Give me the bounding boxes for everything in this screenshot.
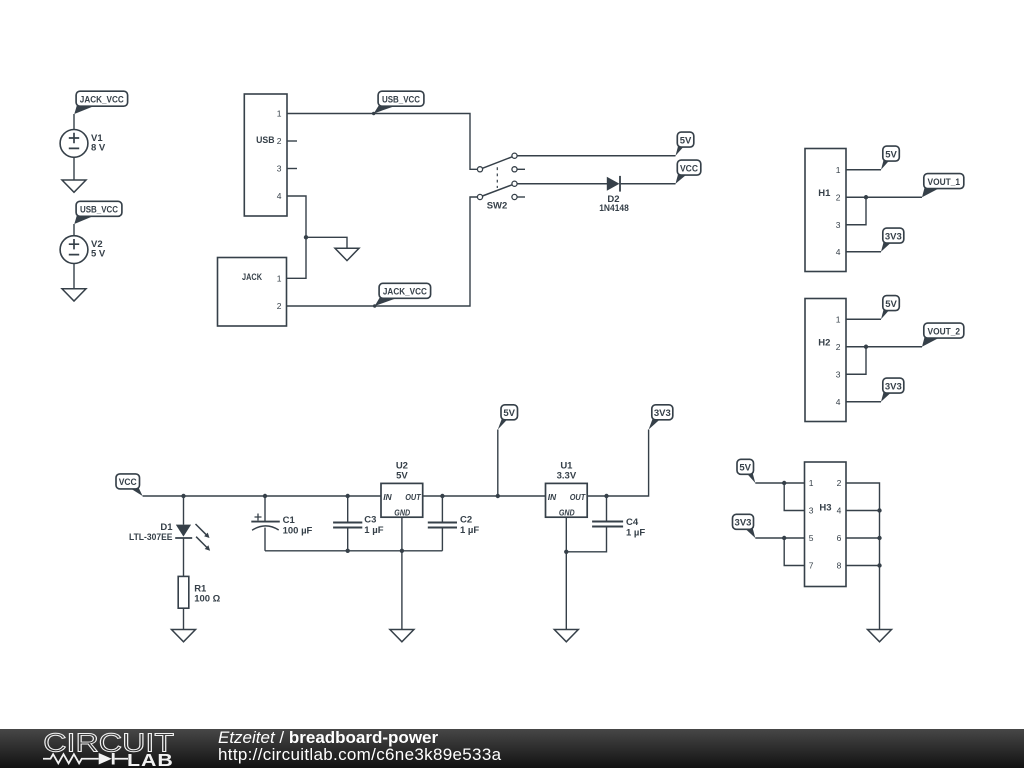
svg-text:IN: IN: [383, 492, 392, 502]
net flag USB_VCC (USB pin1 wire): [374, 91, 424, 113]
svg-text:VOUT_2: VOUT_2: [928, 326, 961, 337]
junction H3 pin6: [877, 536, 881, 540]
net flag 5V (H2 pin1): [881, 296, 899, 320]
svg-text:1: 1: [836, 165, 841, 175]
svg-text:1N4148: 1N4148: [599, 203, 629, 214]
svg-text:1 µF: 1 µF: [460, 525, 479, 536]
junction rail C3: [346, 494, 350, 498]
svg-text:3V3: 3V3: [735, 518, 752, 529]
svg-text:4: 4: [836, 397, 841, 407]
svg-text:8 V: 8 V: [91, 142, 106, 153]
ground U2: [390, 630, 414, 642]
net flag VOUT_1: [922, 174, 964, 198]
junction flag JACK_VCC anchor: [373, 304, 376, 307]
connector USB: [244, 94, 287, 216]
net flag 3V3 (H3): [733, 514, 756, 538]
svg-text:2: 2: [277, 136, 282, 146]
junction rail C1: [263, 494, 267, 498]
svg-text:1: 1: [836, 314, 841, 324]
capacitor C4 1uF: [592, 522, 623, 527]
voltage source V2: [60, 236, 106, 264]
net flag 5V (H3): [737, 459, 755, 483]
wire C3 to bottom rail: [347, 528, 349, 551]
svg-text:5 V: 5 V: [91, 249, 106, 260]
wire H3 pin2 to gnd bus: [846, 483, 880, 630]
svg-text:2: 2: [836, 342, 841, 352]
CircuitLab logo resistor symbol: [43, 754, 99, 763]
svg-text:GND: GND: [394, 507, 410, 517]
svg-text:100 Ω: 100 Ω: [194, 594, 220, 605]
wire H3 pin4: [846, 510, 880, 512]
svg-text:2: 2: [277, 301, 282, 311]
junction rail C4: [604, 494, 608, 498]
svg-text:VOUT_1: VOUT_1: [928, 177, 961, 188]
net flag 5V (H1 pin1): [881, 146, 899, 170]
wire H1 pin1: [846, 169, 881, 171]
svg-text:SW2: SW2: [487, 201, 508, 212]
ground H3: [868, 630, 892, 642]
wire U1.OUT to 3V3: [587, 430, 648, 497]
wire rail U2.OUT to U1.IN: [423, 495, 546, 497]
svg-text:USB_VCC: USB_VCC: [80, 205, 118, 216]
svg-text:8: 8: [837, 561, 842, 571]
svg-text:4: 4: [836, 247, 841, 257]
wire H3 pin6: [846, 537, 880, 539]
wire bottom rail: [265, 550, 442, 552]
wire H3 pin1-pin3 link: [784, 483, 804, 511]
wire throw1 to 5V flag: [517, 155, 675, 157]
svg-text:1: 1: [809, 478, 814, 488]
svg-text:VCC: VCC: [680, 163, 698, 174]
capacitor C3 1uF: [333, 523, 362, 528]
svg-text:6: 6: [837, 533, 842, 543]
svg-text:3: 3: [836, 220, 841, 230]
svg-text:3V3: 3V3: [885, 231, 902, 242]
svg-text:7: 7: [809, 561, 814, 571]
junction H3 left top: [782, 481, 786, 485]
net flag 3V3 (H2 pin4): [881, 378, 904, 402]
wire V2 top: [73, 224, 75, 236]
net flag 3V3 (U1 out): [649, 405, 673, 430]
wire H3 pin8: [846, 565, 880, 567]
svg-text:H3: H3: [819, 503, 831, 514]
wire H2 pin2 to VOUT_2: [846, 346, 922, 348]
wire R1 to ground: [183, 608, 185, 629]
wire H1 pin2 to VOUT_1: [846, 196, 922, 198]
ground R1: [172, 630, 196, 642]
wire JACK pin2 to switch: [287, 197, 478, 306]
header H1: [805, 149, 846, 272]
net flag VCC (rail): [116, 474, 143, 496]
wire rail to C4: [606, 496, 608, 522]
LED D1 LTL-307EE: [129, 522, 210, 551]
CircuitLab logo diode symbol: [99, 753, 112, 765]
net flag 5V (rail tap): [498, 405, 518, 430]
junction H3 pin4: [877, 508, 881, 512]
wire V1 bottom: [73, 157, 75, 180]
footer title Etzeitet / breadboard-power: [218, 728, 438, 748]
wire H1 pin4: [846, 251, 881, 253]
net flag JACK_VCC (V1): [74, 91, 127, 114]
wire H3 pin5-pin7 link: [784, 538, 804, 566]
wire rail to C1: [264, 496, 266, 522]
CircuitLab logo wordmark CIRCUIT: [43, 729, 174, 757]
wire C2 to bottom rail: [441, 528, 443, 551]
wire V2 bottom: [73, 263, 75, 288]
svg-text:4: 4: [277, 191, 282, 201]
wire H1 pin2-pin3 link: [846, 197, 866, 225]
CircuitLab logo wordmark LAB: [127, 751, 174, 768]
svg-text:2: 2: [837, 478, 842, 488]
svg-text:1 µF: 1 µF: [364, 525, 383, 536]
net flag 5V (switch): [676, 132, 694, 156]
svg-text:5V: 5V: [739, 463, 751, 474]
junction H3 left bottom: [782, 536, 786, 540]
net flag JACK_VCC (JACK pin2 wire): [375, 283, 431, 306]
wire H2 pin2-pin3 link: [846, 347, 866, 375]
svg-text:USB: USB: [256, 135, 275, 146]
header H2: [805, 299, 846, 422]
svg-text:VCC: VCC: [119, 477, 137, 488]
net flag VCC (D2): [676, 160, 701, 184]
wire C1 to bottom rail: [264, 528, 266, 551]
wire 3V3 to H3 pin5: [755, 537, 804, 539]
regulator U2 5V: [381, 460, 423, 517]
ground V2: [62, 289, 86, 301]
svg-text:H1: H1: [818, 188, 831, 199]
wire D1 to R1: [183, 538, 185, 576]
wire to mid ground: [306, 237, 347, 248]
svg-text:1 µF: 1 µF: [626, 528, 645, 539]
svg-text:3: 3: [809, 506, 814, 516]
wire rail to D1: [183, 496, 185, 525]
ground V1: [62, 180, 86, 192]
svg-text:4: 4: [837, 506, 842, 516]
svg-text:C4: C4: [626, 517, 639, 528]
regulator U1 3.3V: [546, 460, 588, 517]
svg-text:5V: 5V: [396, 471, 408, 482]
svg-text:JACK_VCC: JACK_VCC: [383, 287, 427, 298]
svg-text:5V: 5V: [680, 135, 692, 146]
junction bottom U2 gnd: [400, 549, 404, 553]
junction U1 gnd C4: [564, 550, 568, 554]
wire rail to C2: [441, 496, 443, 523]
junction H3 pin8: [877, 563, 881, 567]
svg-text:3: 3: [277, 164, 282, 174]
wire 5V tap: [497, 430, 499, 497]
junction rail 5V tap: [496, 494, 500, 498]
connector JACK: [218, 258, 287, 327]
svg-text:H2: H2: [818, 338, 830, 349]
wire U2 GND to ground: [401, 517, 403, 629]
wire V1 top: [73, 114, 75, 130]
wire D2 to VCC flag: [621, 183, 676, 185]
svg-text:1: 1: [277, 109, 282, 119]
svg-text:5V: 5V: [503, 408, 515, 419]
junction bottom C3: [346, 549, 350, 553]
junction USB4-JACK1-gnd: [304, 235, 308, 239]
junction flag USB_VCC anchor: [372, 112, 375, 115]
net flag USB_VCC (V2): [74, 201, 122, 224]
svg-text:3: 3: [836, 369, 841, 379]
junction rail C2: [440, 494, 444, 498]
voltage source V1: [60, 130, 106, 158]
svg-text:OUT: OUT: [405, 492, 421, 502]
junction H1 pin2: [864, 195, 868, 199]
svg-text:5V: 5V: [885, 299, 897, 310]
svg-text:3.3V: 3.3V: [557, 471, 577, 482]
wire U1 GND to ground: [565, 517, 567, 629]
svg-text:C3: C3: [364, 514, 376, 525]
wire main rail left: [143, 495, 381, 497]
wire C4 to U1 gnd: [566, 527, 606, 552]
USB pin 2 stub: [287, 140, 297, 142]
wire USB pin1 to switch: [287, 114, 477, 170]
svg-text:LAB: LAB: [127, 751, 174, 768]
diode D2 1N4148: [599, 176, 629, 214]
capacitor C1 100uF polarized: [251, 514, 312, 537]
capacitor C2 1uF: [428, 523, 457, 528]
svg-text:3V3: 3V3: [654, 408, 671, 419]
svg-text:USB_VCC: USB_VCC: [382, 95, 420, 106]
svg-text:1: 1: [277, 273, 282, 283]
svg-text:3V3: 3V3: [885, 381, 902, 392]
svg-text:JACK: JACK: [242, 272, 262, 283]
net flag VOUT_2: [922, 323, 964, 347]
wire H2 pin4: [846, 401, 881, 403]
wire throw2 to D2: [517, 183, 607, 185]
wire H2 pin1: [846, 318, 881, 320]
footer url: [218, 745, 501, 765]
wire rail to C3: [347, 496, 349, 523]
USB pin 3 stub: [287, 168, 297, 170]
svg-text:100 µF: 100 µF: [283, 525, 313, 536]
svg-text:2: 2: [836, 192, 841, 202]
svg-text:JACK_VCC: JACK_VCC: [80, 95, 124, 106]
svg-text:IN: IN: [548, 492, 557, 502]
svg-text:C2: C2: [460, 514, 472, 525]
switch SW2: [477, 153, 525, 212]
svg-text:LTL-307EE: LTL-307EE: [129, 532, 173, 543]
junction H2 pin2: [864, 345, 868, 349]
svg-text:5V: 5V: [885, 149, 897, 160]
wire USB pin4 to JACK pin1: [287, 196, 307, 278]
ground mid: [335, 248, 359, 260]
junction rail D1: [181, 494, 185, 498]
svg-text:GND: GND: [559, 507, 575, 517]
resistor R1 100 ohm: [178, 576, 220, 608]
wire to LAB: [115, 758, 128, 760]
svg-text:5: 5: [809, 533, 814, 543]
ground U1: [554, 630, 578, 642]
wire 5V to H3 pin1: [755, 482, 804, 484]
net flag 3V3 (H1 pin4): [881, 228, 904, 252]
svg-text:OUT: OUT: [570, 492, 586, 502]
header H3: [805, 462, 847, 587]
